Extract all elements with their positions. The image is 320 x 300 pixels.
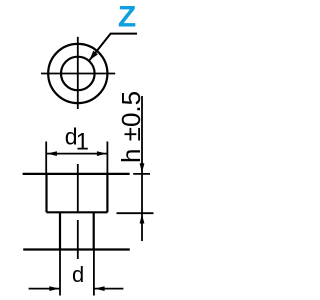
dimension d1: left extension line: [45, 142, 47, 174]
dimension d: right arrowhead (pointing left): [95, 286, 105, 291]
svg-text:Z: Z: [118, 0, 136, 33]
dimension h: top arrowhead (pointing down): [140, 163, 145, 173]
dimension h: top extension line: [133, 173, 150, 175]
front view: flange right side: [106, 174, 108, 212]
front view: vertical center line upper segment: [77, 164, 79, 212]
top view: outer circle: [48, 44, 107, 103]
front view: top surface line A: [23, 173, 130, 175]
front view: shaft right side: [93, 212, 95, 249]
front view: flange bottom line: [47, 211, 108, 213]
dimension h: bottom arrowhead (pointing up): [140, 214, 145, 224]
front view: flange left side: [45, 174, 47, 212]
leader arrowhead: [89, 51, 98, 61]
wire leader line to Z: [89, 34, 137, 61]
front view: shaft left side: [59, 212, 61, 249]
dimension d: right extension line: [93, 250, 95, 296]
dimension d: right tail line: [94, 288, 124, 290]
top view: horizontal center line: [41, 73, 115, 75]
front view: mounting surface line B: [23, 248, 130, 250]
dimension d1: dimension line: [46, 153, 107, 155]
dimension d1: right extension line: [106, 142, 108, 174]
dimension d: left extension line: [59, 250, 61, 296]
front view: vertical center line lower segment: [77, 220, 79, 259]
top view: inner circle: [61, 57, 95, 91]
dimension d: left arrowhead (pointing right): [49, 286, 59, 291]
dimension d: left tail line: [29, 288, 60, 290]
dimension h: bottom extension line: [117, 212, 154, 214]
svg-text:h ±0.5: h ±0.5: [116, 91, 146, 163]
top view: vertical center line: [77, 37, 79, 109]
dimension h: vertical dimension line: [141, 96, 143, 241]
dimension d1: left arrowhead: [47, 151, 57, 156]
svg-text:d: d: [72, 262, 84, 287]
dimension d1: right arrowhead: [97, 151, 107, 156]
